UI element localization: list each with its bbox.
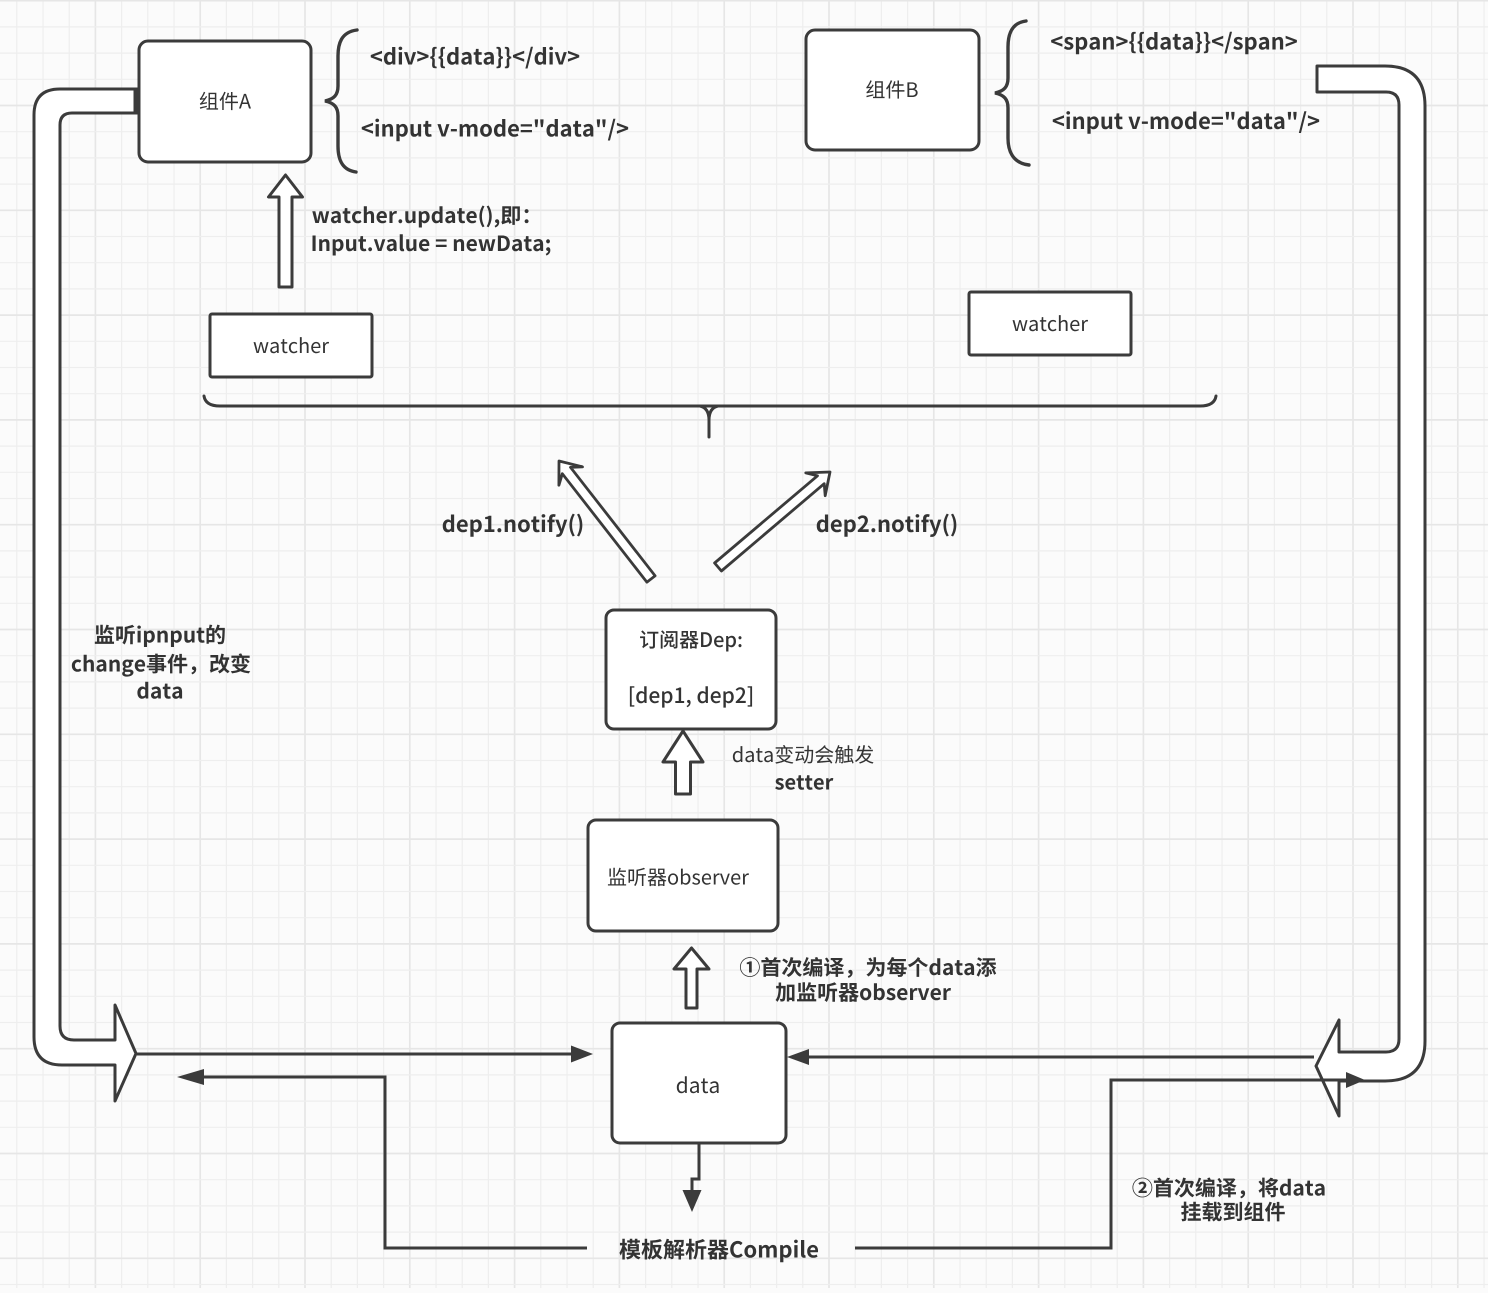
big horizontal brace over Dep xyxy=(204,396,1216,437)
code <input v-mode="data"/> (left) xyxy=(362,119,628,142)
arrow data -> 监听器observer (hollow, up) xyxy=(674,948,709,1008)
arrowhead down to Compile xyxy=(683,1190,702,1212)
label ②首次编译，将data xyxy=(1132,1177,1324,1198)
label data xyxy=(677,1076,719,1093)
label 监听ipnput的 xyxy=(95,625,225,647)
code <input v-mode="data"/> (right) xyxy=(1053,111,1319,134)
label change事件，改变 xyxy=(72,653,250,676)
label watcher (left box) xyxy=(254,337,330,353)
arrowhead into data (right) xyxy=(787,1049,809,1065)
arrow 监听器observer -> 订阅器Dep (hollow, up) xyxy=(663,731,703,794)
label ①首次编译，为每个data添 xyxy=(740,957,996,978)
box 监听器observer xyxy=(588,820,778,931)
label watcher.update(),即： xyxy=(312,206,528,228)
box 组件A xyxy=(139,41,311,162)
wire: from left pipe arrow to data box xyxy=(137,1053,573,1056)
arrow dep2.notify() (hollow, diagonal up-right) xyxy=(715,472,830,571)
label 模板解析器Compile xyxy=(619,1239,818,1262)
label dep2.notify() xyxy=(817,514,957,537)
box 订阅器Dep xyxy=(606,610,776,729)
label [dep1, dep2] xyxy=(630,686,752,707)
brace for 组件A xyxy=(325,30,357,172)
arrowhead pointing right (into right pipe) xyxy=(1346,1072,1365,1088)
arrowhead into data (left) xyxy=(571,1046,593,1063)
code <span>{{data}}</span> xyxy=(1051,32,1297,54)
box data xyxy=(612,1023,786,1143)
box watcher (left) xyxy=(210,314,372,377)
label dep1.notify() xyxy=(443,514,583,537)
code <div>{{data}}</div> xyxy=(371,47,579,69)
label data (left note) xyxy=(137,682,182,699)
label watcher (right box) xyxy=(1013,315,1089,331)
wire: from Compile up-left toward 组件A with arrowhead xyxy=(204,1077,587,1248)
wire: from Compile right segment up to right pipe with arrowhead xyxy=(855,1080,1348,1248)
wire: hollow pipe from 组件A down to data, with hollow arrowhead xyxy=(34,89,141,1101)
box 组件B xyxy=(806,30,979,150)
label 组件A xyxy=(200,92,251,110)
label setter xyxy=(775,775,833,790)
label 组件B xyxy=(866,80,917,98)
label 挂载到组件 xyxy=(1181,1202,1285,1222)
label 加监听器observer xyxy=(776,982,951,1002)
wire: from right pipe to data box xyxy=(809,1056,1314,1059)
arrowhead pointing left (to 组件A loop) xyxy=(177,1069,204,1085)
wire: data down to 模板解析器Compile xyxy=(692,1143,699,1191)
label 订阅器Dep: xyxy=(640,630,742,651)
label data变动会触发 xyxy=(733,745,874,764)
label Input.value = newData; xyxy=(313,234,551,255)
brace for 组件B xyxy=(995,21,1029,165)
wire: pipe end cap at 组件A left edge xyxy=(134,88,139,114)
arrow dep1.notify() (hollow, diagonal up-left) xyxy=(559,461,655,582)
wire: hollow pipe from 组件B side down to data, with hollow arrowhead xyxy=(1316,66,1425,1116)
label 监听器observer xyxy=(608,868,749,886)
box watcher (right) xyxy=(969,292,1131,355)
arrow watcher -> 组件A (hollow, up) xyxy=(269,175,303,287)
